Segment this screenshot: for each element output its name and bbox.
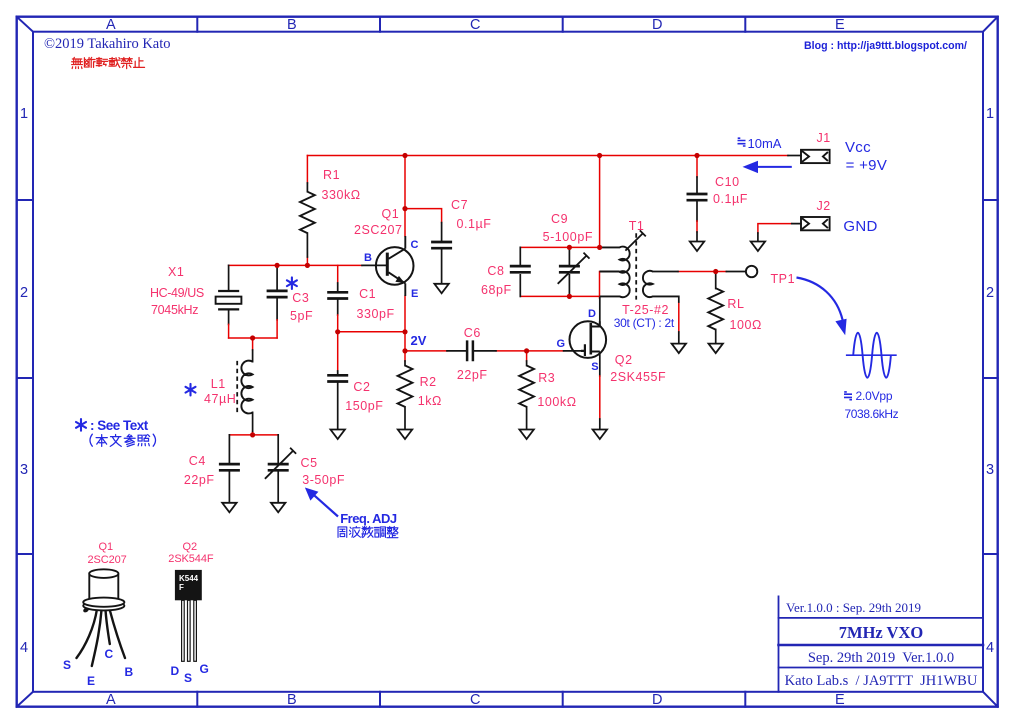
package marking F [179, 583, 184, 592]
wire T1 secondary out [678, 271, 726, 273]
note 30t CT 2t [614, 316, 674, 330]
transformer T1 primary [600, 247, 630, 298]
asterisk mark near C3 [287, 277, 297, 289]
junction TP1 RL [713, 269, 718, 274]
grid letter E bottom [835, 692, 845, 708]
pin label D Q2 [588, 308, 596, 320]
label C1 [359, 287, 376, 301]
wire Vcc top rail [307, 155, 788, 157]
value T-25-#2 [622, 303, 669, 317]
wire J2 net [758, 224, 792, 233]
grid letter A bottom [106, 692, 116, 708]
junction tank top T1 [597, 245, 602, 250]
label C2 [353, 380, 370, 394]
inductor L1 core dashed [236, 361, 238, 413]
wire J1 lead [788, 155, 801, 157]
ground under J2 [751, 242, 765, 252]
package pin S [63, 658, 71, 672]
title block author [779, 673, 983, 690]
approx-equal sign before 10mA [738, 138, 746, 146]
arrow Freq ADJ to C5 [305, 488, 338, 517]
node label 2V [411, 333, 427, 348]
label +9V [846, 157, 888, 174]
junction gate R3 [524, 348, 529, 353]
ground under R3 [519, 430, 533, 440]
value 330pF [357, 307, 395, 321]
value 330kΩ [322, 188, 361, 202]
wire 2V node to C6 [405, 350, 447, 352]
value 22pF C4 [184, 473, 215, 487]
value HC-49/US [150, 286, 204, 300]
wire T1 CT to drain [599, 272, 601, 299]
ground under R2 [398, 430, 412, 440]
junction rail T1 branch [597, 153, 602, 158]
wire tank top net [520, 156, 599, 248]
grid letter B bottom [287, 692, 297, 708]
label C8 [487, 264, 504, 278]
wire C4 C5 net [229, 434, 278, 436]
transformer T1 adjust slash [625, 230, 645, 250]
pin label G Q2 [557, 338, 566, 350]
title block date version [779, 650, 983, 667]
junction X1 bottom L1 [250, 335, 255, 340]
package pin G [200, 662, 209, 676]
package pin E [87, 674, 95, 688]
value 3-50pF [302, 473, 345, 487]
wire C5 leads [277, 435, 279, 503]
resistor R3 [519, 366, 534, 407]
wire R1 top [306, 156, 308, 184]
wire X1 leads [228, 265, 230, 324]
resistor RL [708, 288, 723, 329]
label T1 [629, 219, 645, 233]
note 7038.6kHz [845, 407, 899, 421]
capacitor C5 trimmer arrow [265, 448, 296, 479]
junction collector C7 [402, 206, 407, 211]
connector J2 [801, 217, 830, 230]
connector J1 [801, 150, 830, 163]
label GND [843, 218, 877, 235]
label Vcc [845, 139, 871, 156]
wire C3 leads [276, 265, 278, 319]
note 2.0Vpp [856, 389, 893, 403]
wire C1 leads [337, 265, 339, 283]
wire C6 to Q2 gate [496, 350, 564, 352]
package pin D [171, 664, 180, 678]
label J2 [817, 199, 831, 213]
ground under Q2 source [593, 430, 607, 440]
grid letter A top [106, 17, 116, 33]
asterisk mark near L1 [186, 384, 196, 396]
capacitor C2 plates [327, 375, 348, 381]
value 2SC207 [354, 223, 402, 237]
value 7045kHz [151, 303, 198, 317]
capacitor C9 plates [559, 266, 580, 272]
title block version date [786, 600, 921, 616]
wire Q2 source leg [599, 353, 601, 376]
value 22pF C6 [457, 368, 488, 382]
ground under C10 [690, 242, 704, 252]
wire collector branch [404, 156, 406, 237]
wire C7 branch [405, 209, 442, 223]
label L1 [211, 377, 226, 391]
grid number 3 right [986, 462, 994, 478]
package drawing Q1 metal can [77, 569, 126, 666]
package drawing Q2 TO-92 [175, 570, 202, 661]
waveform sine at TP1 [846, 333, 897, 378]
grid letter E top [835, 17, 845, 33]
label C9 [551, 212, 568, 226]
label Q1 [382, 207, 400, 221]
wire tank bottom net [520, 295, 599, 297]
wire C9 leads [568, 247, 570, 296]
pin label B Q1 [364, 252, 372, 264]
label C7 [451, 198, 468, 212]
label R3 [538, 371, 555, 385]
package value 2SC207 [88, 554, 127, 566]
wire C7 lower lead [441, 223, 443, 284]
arrow TP1 to waveform [797, 278, 847, 336]
value 5pF [290, 309, 313, 323]
transistor Q1 [376, 236, 414, 296]
wire RL leads [715, 272, 717, 344]
wire Q2 gate pin [564, 350, 581, 352]
grid letter C bottom [470, 692, 480, 708]
capacitor C10 plates [687, 194, 708, 200]
label Q2 [615, 353, 633, 367]
wire emitter branch [404, 296, 406, 351]
label C6 [464, 326, 481, 340]
value 68pF [481, 283, 512, 297]
label RL [727, 297, 744, 311]
package label Q1 [99, 541, 114, 553]
wire R2 leads [404, 351, 406, 361]
junction node 2V R2 [402, 348, 407, 353]
junction C1 C2 [335, 329, 340, 334]
title block [779, 596, 984, 691]
crystal X1 [216, 291, 242, 309]
label C4 [189, 454, 206, 468]
package pin S2 [184, 671, 192, 685]
wire C8 leads [519, 247, 521, 296]
value 5-100pF [543, 230, 593, 244]
grid letter D top [652, 17, 662, 33]
title block name [779, 623, 983, 643]
label blog url [804, 40, 967, 52]
junction L1 bottom C4 C5 [250, 432, 255, 437]
wire L1 leads [252, 338, 254, 435]
wire C6 leads [447, 350, 496, 352]
wire C10 branch [696, 156, 698, 178]
ground under C2 [331, 430, 345, 440]
transistor Q2 [570, 321, 607, 358]
blue kanji 本文参照 with parentheses [90, 434, 156, 446]
value 0.1µF [457, 217, 492, 231]
package pin B [125, 665, 134, 679]
label X1 [168, 265, 184, 279]
value 100Ω [730, 318, 762, 332]
grid number 2 right [986, 285, 994, 301]
grid number 4 left [20, 640, 28, 656]
pin label C Q1 [411, 239, 419, 251]
junction rail Q1 collector [402, 153, 407, 158]
value 2SK455F [610, 370, 666, 384]
grid number 4 right [986, 640, 994, 656]
grid number 2 left [20, 285, 28, 301]
note See Text [90, 418, 148, 433]
grid letter C top [470, 17, 480, 33]
blue kanji 周波数調整 [338, 526, 398, 537]
inductor L1 [241, 361, 252, 414]
wire TP1 lead [653, 271, 746, 273]
wire R3 leads [526, 351, 528, 361]
transformer T1 core dashed [635, 233, 637, 299]
pin label E Q1 [411, 288, 418, 300]
junction emitter C1 [402, 329, 407, 334]
approx-equal sign before 2.0Vpp [844, 392, 852, 400]
value 1kΩ [418, 394, 442, 408]
grid number 1 left [20, 106, 28, 122]
pin label S Q2 [591, 361, 598, 373]
wire Q2 drain pin [599, 298, 601, 327]
label R1 [323, 168, 340, 182]
wire Q1 base pin [362, 264, 386, 266]
package label Q2 [183, 541, 198, 553]
value 47µH [204, 392, 236, 406]
wire R1 bottom [306, 257, 308, 265]
wire X1 bottom net [229, 337, 278, 339]
ground under RL [709, 344, 723, 354]
capacitor C5 plates [268, 464, 289, 470]
grid letter B top [287, 17, 297, 33]
package value 2SK544F [168, 553, 213, 565]
ground under T1 secondary [672, 344, 686, 354]
capacitor C9 trimmer arrow [558, 253, 590, 284]
resistor R1 [300, 192, 315, 233]
capacitor C4 plates [219, 464, 240, 470]
capacitor C3 plates [267, 291, 288, 297]
resistor R2 [398, 366, 413, 407]
note Freq ADJ [340, 511, 396, 526]
package marking K544 [179, 574, 198, 583]
label R2 [420, 375, 437, 389]
value 150pF [345, 399, 383, 413]
ground under C4 [222, 503, 236, 513]
wire C1 C2 emitter net [338, 331, 405, 333]
wire C4 leads [228, 435, 230, 503]
capacitor C1 plates [327, 292, 348, 298]
junction base R1 [305, 263, 310, 268]
grid letter D bottom [652, 692, 662, 708]
label copyright [44, 36, 171, 53]
red kanji notice 無断転載禁止 [72, 57, 145, 68]
label C5 [301, 456, 318, 470]
ground under C7 [434, 284, 448, 294]
asterisk mark See Text [76, 419, 86, 431]
transformer T1 secondary [643, 271, 679, 297]
transformer T1 center tap [600, 271, 620, 273]
wire T1 secondary ground leg [678, 302, 680, 332]
label J1 [817, 131, 831, 145]
label TP1 [771, 272, 796, 286]
arrow current into J1 [743, 161, 792, 173]
grid number 3 left [20, 462, 28, 478]
label C10 [715, 175, 740, 189]
junction rail C10 branch [694, 153, 699, 158]
capacitor C7 plates [431, 242, 452, 248]
junction base C3 [275, 263, 280, 268]
junction tank top C9 [567, 245, 572, 250]
note 10mA [748, 136, 782, 151]
test point TP1 [746, 266, 757, 277]
grid number 1 right [986, 106, 994, 122]
value 100kΩ [537, 395, 576, 409]
capacitor C6 plates [467, 340, 473, 361]
junction tank bottom C9 [567, 294, 572, 299]
wire base line B net [229, 264, 362, 266]
value 0.1µF C10 [713, 192, 748, 206]
wire R1 pin stubs [306, 183, 308, 257]
ground under C5 [271, 503, 285, 513]
label C3 [292, 291, 309, 305]
capacitor C8 plates [510, 266, 531, 272]
wire C2 leads [337, 332, 339, 371]
package pin C [105, 647, 114, 661]
